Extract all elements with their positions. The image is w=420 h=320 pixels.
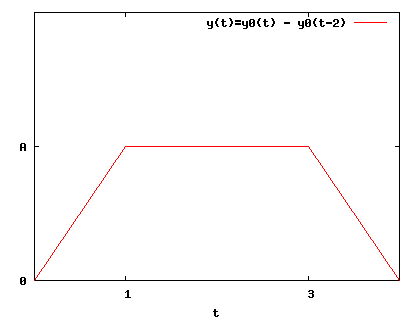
y-axis label A <box>20 143 26 151</box>
curve flat top t=1..3 at y=A <box>125 146 309 147</box>
x-axis tick bottom t=1 <box>125 276 126 280</box>
x-axis label 1 <box>125 290 131 298</box>
curve rising edge t=0..1 <box>34 146 126 281</box>
y-axis label 0 <box>20 277 26 285</box>
legend label y(t)=y0(t) - y0(t-2) <box>207 18 345 29</box>
x-axis label 3 <box>308 290 314 298</box>
legend red line sample <box>354 22 387 23</box>
curve falling edge t=3..4 <box>308 146 400 281</box>
x-axis tick bottom t=3 <box>308 276 309 280</box>
x-axis title t <box>213 309 219 317</box>
y-axis tick left y=A <box>35 146 39 147</box>
plot border box <box>34 12 400 281</box>
x-axis tick top t=3 <box>308 13 309 17</box>
y-axis tick right y=A <box>395 146 399 147</box>
x-axis tick top t=1 <box>125 13 126 17</box>
